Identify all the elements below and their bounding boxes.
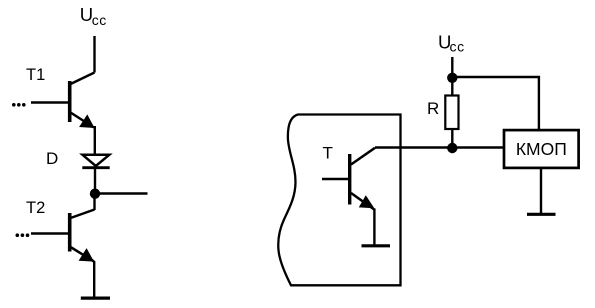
svg-text:R: R: [427, 99, 439, 118]
svg-text:cc: cc: [92, 12, 107, 28]
svg-text:cc: cc: [450, 39, 465, 55]
svg-text:КМОП: КМОП: [516, 139, 567, 159]
svg-text:D: D: [46, 149, 58, 168]
svg-text:T: T: [323, 144, 333, 163]
svg-text:T1: T1: [26, 66, 45, 84]
svg-text:T2: T2: [26, 199, 45, 217]
